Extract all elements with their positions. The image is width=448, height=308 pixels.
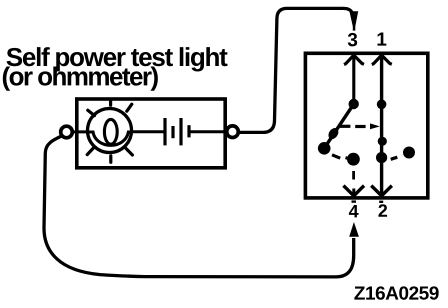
switch box	[305, 53, 427, 198]
tester enclosure box	[77, 99, 225, 168]
wire: left terminal to lamp	[73, 130, 90, 133]
pin label 3	[348, 33, 357, 46]
battery B1	[165, 118, 189, 145]
wire: battery to right terminal	[191, 130, 228, 133]
switch arm (pole 3-4)	[318, 104, 354, 155]
pin label 2	[378, 204, 387, 217]
wire: right terminal up and over to pin 3	[239, 8, 353, 132]
pin label 4	[349, 205, 359, 217]
arrowhead pointing up at pin 4	[349, 222, 359, 237]
pin label 1	[377, 33, 386, 46]
dashed link arm to contact 4	[332, 155, 349, 159]
lamp L1	[87, 99, 132, 162]
terminal left	[61, 126, 73, 138]
pin 2 down arrow	[371, 186, 392, 202]
side contact dot	[403, 147, 415, 159]
label: Self power test light (or ohmmeter)	[3, 47, 228, 91]
pin 1 contact line with up arrow	[372, 55, 392, 196]
pin 4 down arrow	[343, 186, 364, 202]
label: Z16A0259	[354, 286, 438, 299]
arrowhead pointing down at pin 3	[349, 11, 358, 30]
dashed coupling line with right arrow	[340, 123, 380, 129]
dash from contact on line 1-2 to side contact dot	[391, 157, 398, 159]
terminal right	[227, 126, 239, 138]
wire: loop from left terminal around bottom to pin 4	[44, 136, 354, 277]
contact dot 4	[347, 153, 360, 166]
dashed line contact 4 to bottom arrow	[352, 171, 355, 180]
wire: lamp to battery	[132, 130, 164, 133]
pin 3 contact line with up arrow	[344, 55, 364, 109]
